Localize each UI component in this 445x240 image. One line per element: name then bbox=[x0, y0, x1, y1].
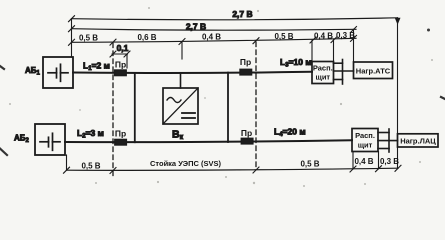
svg-text:щит: щит bbox=[358, 141, 373, 150]
svg-text:0,4 В: 0,4 В bbox=[202, 33, 221, 42]
extension lines to Расп.щит (top) bbox=[311, 40, 313, 61]
svg-text:Пр: Пр bbox=[241, 128, 252, 138]
extension line left (x=71.5) bbox=[71, 19, 73, 57]
converter sine symbol bbox=[167, 98, 181, 103]
svg-text:0,5 В: 0,5 В bbox=[81, 161, 100, 170]
svg-text:0,5 В: 0,5 В bbox=[300, 160, 319, 169]
fuse Пр (bottom-right) bbox=[241, 138, 253, 144]
fuse Пр (top-right) bbox=[240, 69, 252, 75]
Расп.щит box (bottom) bbox=[352, 129, 378, 152]
row3 labels bbox=[79, 31, 355, 42]
svg-text:0,5 В: 0,5 В bbox=[79, 33, 98, 42]
bottom dimension line bbox=[67, 168, 399, 170]
battery АБ2 box bbox=[35, 124, 65, 155]
converter riser bbox=[180, 73, 182, 88]
extension АБ2 to bottom dim bbox=[66, 155, 68, 170]
scan artifact marks bbox=[0, 66, 445, 155]
dimension row1 2,7 В line bbox=[69, 16, 401, 25]
internal vertical connecting buses bbox=[134, 73, 136, 142]
svg-text:L3=10 м: L3=10 м bbox=[280, 57, 312, 69]
converter DC bars bbox=[182, 112, 195, 114]
svg-text:0,6 В: 0,6 В bbox=[137, 33, 156, 42]
svg-text:2,7 В: 2,7 В bbox=[186, 22, 206, 32]
svg-text:0,4 В: 0,4 В bbox=[354, 157, 373, 166]
battery АБ1 symbol bbox=[48, 64, 68, 81]
svg-text:L4=20 м: L4=20 м bbox=[274, 127, 306, 139]
Нагр.ЛАЦ box bbox=[398, 134, 439, 147]
svg-text:0,5 В: 0,5 В bbox=[274, 32, 293, 41]
svg-text:L1=2 м: L1=2 м bbox=[83, 61, 110, 73]
svg-text:Расп.: Расп. bbox=[313, 64, 333, 73]
svg-text:0,3 В: 0,3 В bbox=[336, 31, 355, 40]
converter Вк box bbox=[163, 88, 198, 124]
svg-text:щит: щит bbox=[315, 73, 330, 82]
svg-text:0,4 В: 0,4 В bbox=[314, 31, 333, 40]
fuse Пр (top-left) bbox=[115, 70, 127, 76]
dimension row2 2,7 В line bbox=[69, 26, 357, 33]
bottom bus wire bbox=[65, 140, 352, 142]
svg-text:0,1: 0,1 bbox=[117, 43, 129, 53]
svg-text:0,3 В: 0,3 В bbox=[380, 157, 399, 166]
svg-text:2,7 В: 2,7 В bbox=[232, 9, 252, 19]
converter diagonal bbox=[163, 88, 198, 124]
dimension row3 line bbox=[72, 38, 357, 42]
bottom dim ticks bbox=[64, 165, 402, 173]
right vertical x=397.5 bbox=[397, 18, 399, 169]
svg-text:Нагр.АТС: Нагр.АТС bbox=[356, 66, 391, 75]
wire Расп.щит to Нагр.АТС bbox=[334, 70, 354, 72]
battery АБ2 symbol bbox=[40, 133, 60, 150]
wire Расп.щит to Нагр.ЛАЦ bbox=[378, 140, 398, 142]
top bracket stubs bbox=[334, 60, 343, 85]
svg-text:Пр: Пр bbox=[240, 57, 251, 67]
bottom labels bbox=[81, 157, 399, 170]
Нагр.АТС box bbox=[354, 62, 393, 79]
extension line x=182 bbox=[181, 42, 183, 60]
rack dashed boundary left bbox=[112, 43, 114, 177]
svg-text:Пр: Пр bbox=[115, 129, 126, 139]
output vertical connecting buses bbox=[227, 73, 229, 142]
svg-text:Нагр.ЛАЦ: Нагр.ЛАЦ bbox=[400, 136, 436, 145]
svg-text:Пр: Пр bbox=[115, 59, 126, 69]
svg-text:Стойка УЭПС (SVS): Стойка УЭПС (SVS) bbox=[150, 159, 221, 168]
row3 ticks bbox=[69, 35, 357, 45]
0,1 mini dimension bbox=[110, 51, 130, 68]
rack dashed boundary right bbox=[255, 42, 257, 170]
battery АБ1 box bbox=[43, 57, 73, 88]
bottom bracket stubs bbox=[378, 129, 389, 152]
svg-text:Расп.: Расп. bbox=[355, 131, 375, 140]
extension line x=353.5 to Нагр.АТС bbox=[353, 29, 355, 62]
svg-text:L2=3 м: L2=3 м bbox=[77, 128, 104, 140]
extensions bottom Расп.щит to bottom dim bbox=[352, 152, 354, 170]
top bus wire bbox=[73, 72, 312, 73]
Расп.щит box (top) bbox=[312, 62, 334, 84]
fuse Пр (bottom-left) bbox=[115, 139, 127, 145]
